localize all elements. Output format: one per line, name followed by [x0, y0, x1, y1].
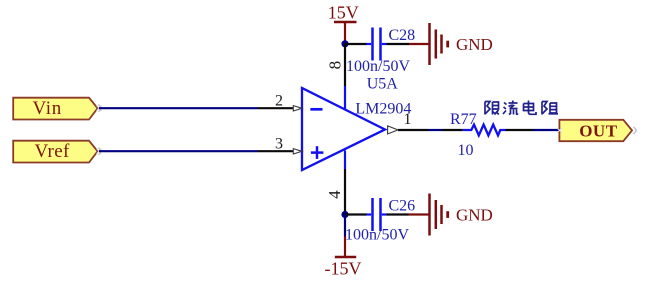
- svg-text:100n/50V: 100n/50V: [346, 58, 410, 75]
- port Vref: [13, 141, 101, 163]
- wire R77 to OUT: [533, 129, 559, 131]
- wire Vref: [99, 150, 258, 152]
- port Vin: [13, 98, 101, 120]
- pin 8: [325, 44, 345, 110]
- op-amp U5A: [302, 88, 385, 170]
- svg-text:100n/50V: 100n/50V: [345, 226, 409, 243]
- ground GND top: [409, 23, 493, 65]
- capacitor C28: [367, 28, 387, 61]
- resistor R77: [442, 111, 533, 159]
- capacitor C26: [367, 198, 387, 231]
- wire junction to C28: [345, 43, 367, 45]
- wire C26 to GND: [387, 213, 409, 215]
- pin 2: [258, 93, 302, 112]
- junction top node: [341, 40, 348, 47]
- svg-text:8: 8: [325, 61, 344, 70]
- 电: [524, 101, 537, 115]
- svg-text:Vref: Vref: [35, 141, 71, 162]
- 阻: [542, 102, 558, 115]
- port OUT: [557, 120, 637, 141]
- wire junction to -15V: [344, 215, 346, 237]
- label 限流电阻 (hand drawn strokes): [485, 101, 558, 115]
- wire C28 to GND: [387, 43, 410, 45]
- wire junction to C26: [345, 213, 367, 215]
- power +15V: [328, 3, 359, 43]
- wire Vin: [99, 107, 258, 109]
- svg-text:U5A: U5A: [367, 76, 399, 93]
- ground GND bottom: [409, 194, 493, 236]
- pin 4: [325, 151, 345, 215]
- svg-text:2: 2: [275, 93, 283, 110]
- svg-text:Vin: Vin: [33, 98, 62, 119]
- svg-text:3: 3: [275, 136, 283, 153]
- junction bottom node: [341, 211, 348, 218]
- svg-text:-15V: -15V: [325, 259, 362, 279]
- wire pin1 to R77: [428, 129, 442, 131]
- svg-text:C26: C26: [389, 197, 416, 214]
- svg-text:GND: GND: [456, 205, 493, 224]
- svg-text:4: 4: [325, 190, 344, 199]
- svg-text:GND: GND: [456, 35, 493, 54]
- svg-text:10: 10: [458, 142, 474, 159]
- svg-text:1: 1: [404, 111, 412, 128]
- svg-text:R77: R77: [450, 111, 477, 128]
- pin 3: [258, 136, 302, 154]
- power -15V: [325, 237, 362, 279]
- 限: [485, 102, 499, 115]
- svg-text:C28: C28: [389, 27, 416, 44]
- svg-text:15V: 15V: [328, 3, 359, 23]
- 流: [503, 101, 518, 115]
- pin 1 output arrow: [388, 111, 428, 134]
- svg-text:OUT: OUT: [579, 122, 618, 141]
